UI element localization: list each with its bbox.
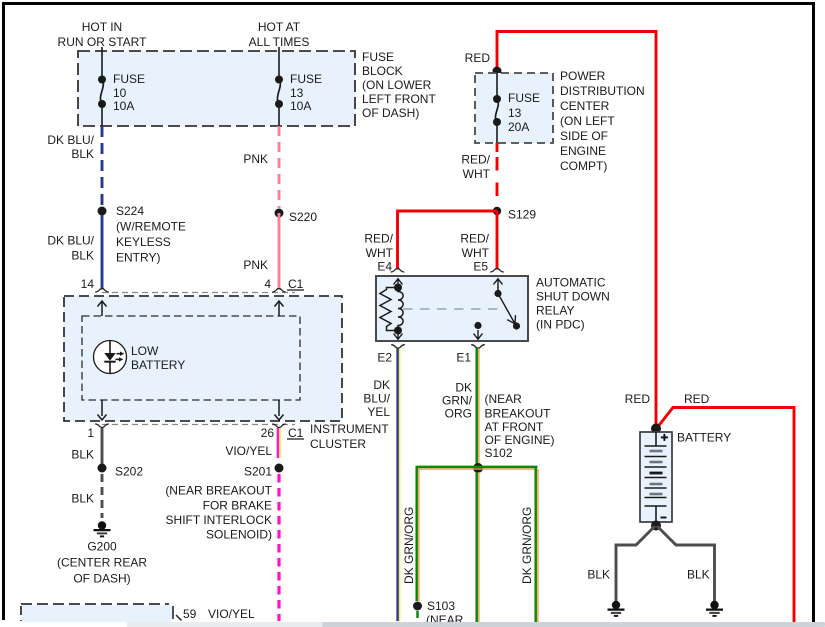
arrow pin1 out bbox=[98, 400, 107, 420]
relay switch blade bbox=[498, 294, 516, 324]
connector hat pin1 bbox=[95, 424, 109, 428]
ground battery left bbox=[608, 601, 625, 616]
svg-text:LEFT FRONT: LEFT FRONT bbox=[362, 92, 436, 106]
relay coil terminal E2 arrow bbox=[394, 330, 403, 340]
wire BLK dashed bbox=[101, 474, 104, 518]
svg-text:RELAY: RELAY bbox=[536, 304, 574, 318]
svg-text:FUSE: FUSE bbox=[113, 72, 145, 86]
connector hat E2 bbox=[391, 345, 405, 349]
wire VIO dashed bbox=[277, 474, 280, 621]
svg-text:4: 4 bbox=[264, 277, 271, 291]
svg-text:DK: DK bbox=[455, 381, 472, 395]
svg-text:DK BLU/: DK BLU/ bbox=[47, 234, 94, 248]
wire RED/WHT to E5 bbox=[496, 211, 499, 270]
node RED at PDC bbox=[493, 67, 502, 76]
svg-text:SIDE OF: SIDE OF bbox=[560, 129, 608, 143]
svg-text:AT FRONT: AT FRONT bbox=[485, 420, 545, 434]
relay coil terminal E4 arrow bbox=[394, 279, 403, 289]
svg-text:SOLENOID): SOLENOID) bbox=[206, 528, 272, 542]
wire RED main feed bbox=[497, 32, 656, 426]
label POWER DISTRIBUTION CENTER bbox=[560, 69, 645, 173]
label C1 bottom bbox=[287, 426, 304, 440]
connector hat E5 bbox=[490, 269, 504, 273]
wire BLK battery left bbox=[616, 526, 655, 601]
fuse F10 bbox=[98, 76, 106, 109]
svg-text:26: 26 bbox=[261, 426, 275, 440]
svg-text:HOT AT: HOT AT bbox=[258, 20, 301, 34]
svg-text:OF DASH): OF DASH) bbox=[362, 106, 419, 120]
svg-text:BATTERY: BATTERY bbox=[131, 358, 185, 372]
svg-text:CENTER: CENTER bbox=[560, 99, 610, 113]
svg-text:13: 13 bbox=[508, 106, 522, 120]
label G200 bbox=[57, 540, 147, 586]
wire BLK battery right bbox=[657, 526, 715, 601]
cluster inner box bbox=[82, 316, 300, 400]
relay resistor zigzag bbox=[380, 288, 398, 331]
wire fuse13dash feed bbox=[278, 47, 280, 80]
svg-text:WHT: WHT bbox=[463, 167, 491, 181]
wire RED/WHT solid stub bbox=[496, 143, 499, 152]
svg-text:OF ENGINE): OF ENGINE) bbox=[485, 433, 555, 447]
svg-text:DISTRIBUTION: DISTRIBUTION bbox=[560, 84, 645, 98]
wire VIO/YEL solid bbox=[278, 428, 280, 458]
ground battery right bbox=[706, 601, 723, 616]
wire BLK solid pin1 bbox=[101, 428, 104, 464]
wire RED/WHT to E4 bbox=[398, 211, 498, 270]
splice S102 bbox=[473, 463, 483, 473]
pin 59 tick bbox=[176, 615, 182, 621]
wire DK BLU/YEL bbox=[398, 348, 400, 621]
arrow pin4 in bbox=[275, 301, 284, 316]
svg-text:LOW: LOW bbox=[131, 344, 159, 358]
svg-text:(ON LEFT: (ON LEFT bbox=[560, 114, 615, 128]
svg-text:10A: 10A bbox=[290, 99, 311, 113]
connector hat pin14 bbox=[95, 289, 109, 293]
wire DK GRN/ORG center down bbox=[477, 472, 479, 622]
svg-text:E2: E2 bbox=[377, 351, 392, 365]
relay coil winding bbox=[398, 288, 403, 331]
wire DK BLU/BLK dashed bbox=[101, 126, 104, 207]
label INSTRUMENT CLUSTER bbox=[310, 422, 389, 451]
wire DK BLU/BLK solid bbox=[101, 215, 104, 290]
connector line C1 top bbox=[102, 292, 295, 294]
label FUSE BLOCK location bbox=[362, 50, 436, 120]
svg-text:BLK: BLK bbox=[71, 492, 94, 506]
label AUTOMATIC SHUT DOWN RELAY bbox=[536, 276, 610, 332]
svg-text:RED: RED bbox=[625, 392, 651, 406]
wire DK GRN dashed below S103 bbox=[416, 611, 419, 621]
relay switch pivot bbox=[494, 290, 501, 297]
svg-text:DK: DK bbox=[373, 378, 390, 392]
splice S202 bbox=[98, 464, 107, 473]
svg-text:SHUT DOWN: SHUT DOWN bbox=[536, 290, 610, 304]
svg-text:(ON LOWER: (ON LOWER bbox=[362, 78, 432, 92]
svg-text:E1: E1 bbox=[456, 351, 471, 365]
svg-text:COMPT): COMPT) bbox=[560, 159, 607, 173]
svg-text:VIO/YEL: VIO/YEL bbox=[208, 607, 255, 621]
svg-text:C1: C1 bbox=[288, 277, 304, 291]
splice S129 bbox=[493, 207, 501, 215]
svg-text:FUSE: FUSE bbox=[508, 91, 540, 105]
label DK GRN/ORG bbox=[442, 381, 473, 421]
svg-text:FUSE: FUSE bbox=[290, 72, 322, 86]
svg-text:S220: S220 bbox=[289, 210, 317, 224]
svg-text:E4: E4 bbox=[377, 260, 392, 274]
wire DK GRN/ORG E1 bbox=[477, 348, 479, 464]
svg-text:HOT IN: HOT IN bbox=[82, 20, 122, 34]
svg-text:OF DASH): OF DASH) bbox=[73, 572, 130, 586]
svg-text:WHT: WHT bbox=[366, 246, 394, 260]
svg-text:ALL TIMES: ALL TIMES bbox=[249, 35, 310, 49]
svg-text:C1: C1 bbox=[288, 426, 304, 440]
svg-text:13: 13 bbox=[290, 86, 304, 100]
wire PNK dashed bbox=[278, 126, 281, 208]
svg-text:INSTRUMENT: INSTRUMENT bbox=[310, 422, 389, 436]
arrow pin26 out bbox=[275, 400, 284, 420]
connector hat pin4 bbox=[272, 289, 286, 293]
svg-text:10A: 10A bbox=[113, 99, 134, 113]
svg-text:CLUSTER: CLUSTER bbox=[310, 437, 366, 451]
scrollbar strip bbox=[127, 622, 825, 627]
relay terminal E1 arrow bbox=[474, 330, 483, 340]
svg-text:S201: S201 bbox=[244, 465, 272, 479]
svg-text:BLK: BLK bbox=[71, 147, 94, 161]
svg-text:BLK: BLK bbox=[587, 568, 610, 582]
wire fuse10 out bbox=[101, 104, 103, 126]
node battery positive bbox=[651, 424, 661, 434]
splice S201 bbox=[275, 464, 284, 473]
connector hat E1 bbox=[471, 345, 485, 349]
arrow pin14 in bbox=[98, 301, 107, 316]
svg-text:59: 59 bbox=[183, 607, 197, 621]
svg-text:AUTOMATIC: AUTOMATIC bbox=[536, 276, 606, 290]
svg-text:RED/: RED/ bbox=[364, 232, 393, 246]
connector hat E4 bbox=[391, 269, 405, 273]
svg-text:(W/REMOTE: (W/REMOTE bbox=[116, 220, 186, 234]
svg-text:KEYLESS: KEYLESS bbox=[116, 235, 171, 249]
svg-text:PNK: PNK bbox=[243, 258, 268, 272]
wire DK GRN/ORG left branch bbox=[417, 466, 419, 601]
wire RED battery jumper bbox=[657, 408, 795, 624]
svg-text:S129: S129 bbox=[508, 208, 536, 222]
svg-text:WHT: WHT bbox=[462, 246, 490, 260]
svg-text:(NEAR: (NEAR bbox=[485, 392, 523, 406]
fuse F13 dash bbox=[275, 76, 283, 109]
battery B1 bbox=[640, 432, 672, 522]
svg-text:BREAKOUT: BREAKOUT bbox=[485, 407, 552, 421]
svg-text:ENTRY): ENTRY) bbox=[116, 251, 160, 265]
label HOT AT ALL TIMES bbox=[249, 20, 310, 49]
svg-text:FUSE: FUSE bbox=[362, 50, 394, 64]
label S103 bbox=[426, 599, 464, 627]
wire fuse13dash out bbox=[278, 104, 280, 126]
wire PNK solid bbox=[278, 213, 281, 290]
relay switch E5 arrow bbox=[494, 279, 503, 293]
connector hat pin26 bbox=[272, 424, 286, 428]
svg-text:S202: S202 bbox=[115, 465, 143, 479]
connector line C1 bottom bbox=[102, 424, 295, 426]
label C1 top bbox=[287, 277, 304, 291]
svg-text:(IN PDC): (IN PDC) bbox=[536, 318, 585, 332]
relay linkage dashed bbox=[403, 308, 504, 310]
node battery negative bbox=[651, 521, 661, 531]
svg-text:10: 10 bbox=[113, 86, 127, 100]
label DK BLU/BLK lower bbox=[47, 234, 94, 263]
svg-text:DK BLU/: DK BLU/ bbox=[47, 133, 94, 147]
label FUSE 13 20A bbox=[508, 91, 540, 134]
label LOW BATTERY bbox=[131, 344, 185, 372]
svg-text:20A: 20A bbox=[508, 120, 529, 134]
fuse block box bbox=[78, 51, 355, 126]
svg-text:FOR BRAKE: FOR BRAKE bbox=[203, 499, 272, 513]
label near breakout engine S102 bbox=[485, 392, 555, 460]
svg-text:BLOCK: BLOCK bbox=[362, 64, 403, 78]
svg-text:G200: G200 bbox=[87, 540, 117, 554]
svg-text:BLU/: BLU/ bbox=[363, 392, 390, 406]
svg-text:BLK: BLK bbox=[687, 568, 710, 582]
label DK BLU/YEL bbox=[363, 378, 390, 419]
diagram frame border bbox=[2, 2, 815, 5]
svg-text:BLK: BLK bbox=[71, 249, 94, 263]
relay switch contact bbox=[513, 322, 520, 329]
svg-text:PNK: PNK bbox=[243, 152, 268, 166]
splice S220 bbox=[275, 209, 284, 218]
wire RED/WHT dashed bbox=[496, 157, 499, 208]
relay terminal E1 node bbox=[474, 322, 481, 329]
label RED/WHT E5 bbox=[460, 232, 489, 261]
bottom left box bbox=[21, 604, 173, 622]
svg-text:ENGINE: ENGINE bbox=[560, 144, 606, 158]
splice S103 bbox=[413, 602, 422, 611]
label RED/WHT pdc bbox=[461, 153, 490, 182]
svg-text:GRN/: GRN/ bbox=[442, 394, 473, 408]
svg-text:14: 14 bbox=[81, 277, 95, 291]
svg-text:RED: RED bbox=[684, 392, 710, 406]
svg-text:YEL: YEL bbox=[367, 405, 390, 419]
label near breakout brake shift bbox=[165, 484, 272, 542]
relay coil top node bbox=[394, 284, 402, 292]
low battery indicator lamp bbox=[94, 341, 127, 374]
svg-text:DK GRN/ORG: DK GRN/ORG bbox=[520, 507, 534, 584]
label RED/WHT E4 bbox=[364, 232, 393, 261]
wire inside PDC bbox=[496, 73, 498, 99]
wire DK GRN/ORG branch horizontal bbox=[417, 467, 538, 469]
svg-text:BLK: BLK bbox=[71, 448, 94, 462]
label HOT IN RUN OR START bbox=[58, 20, 148, 49]
fuse F13 pdc bbox=[493, 95, 501, 126]
svg-text:SHIFT INTERLOCK: SHIFT INTERLOCK bbox=[166, 513, 272, 527]
svg-text:RUN OR START: RUN OR START bbox=[58, 35, 148, 49]
svg-text:S224: S224 bbox=[116, 204, 144, 218]
label FUSE 13 10A bbox=[290, 72, 322, 113]
svg-text:1: 1 bbox=[87, 426, 94, 440]
label FUSE 10 10A bbox=[113, 72, 145, 113]
instrument cluster box bbox=[64, 296, 342, 421]
svg-text:S103: S103 bbox=[427, 599, 455, 613]
wire fuse10 feed bbox=[101, 47, 103, 80]
wire DK GRN/ORG right branch bbox=[536, 466, 538, 622]
PDC box bbox=[475, 73, 553, 143]
splice S224 bbox=[98, 207, 107, 216]
relay coil bottom node bbox=[394, 327, 402, 335]
svg-text:BATTERY: BATTERY bbox=[677, 431, 731, 445]
svg-text:POWER: POWER bbox=[560, 69, 606, 83]
svg-text:DK GRN/ORG: DK GRN/ORG bbox=[402, 507, 416, 584]
label S224 bbox=[116, 204, 186, 265]
svg-text:RED: RED bbox=[465, 51, 491, 65]
svg-text:(NEAR BREAKOUT: (NEAR BREAKOUT bbox=[165, 484, 272, 498]
ground G200 bbox=[94, 521, 111, 536]
svg-text:ORG: ORG bbox=[445, 407, 472, 421]
ASD relay box bbox=[376, 276, 528, 341]
svg-text:RED/: RED/ bbox=[460, 232, 489, 246]
svg-text:VIO/YEL: VIO/YEL bbox=[225, 444, 272, 458]
svg-text:S102: S102 bbox=[485, 446, 513, 460]
svg-text:E5: E5 bbox=[473, 260, 488, 274]
wire fuse13 out bbox=[496, 122, 498, 143]
label DK BLU/BLK upper bbox=[47, 133, 94, 161]
svg-text:(CENTER REAR: (CENTER REAR bbox=[57, 556, 147, 570]
svg-text:RED/: RED/ bbox=[461, 153, 490, 167]
